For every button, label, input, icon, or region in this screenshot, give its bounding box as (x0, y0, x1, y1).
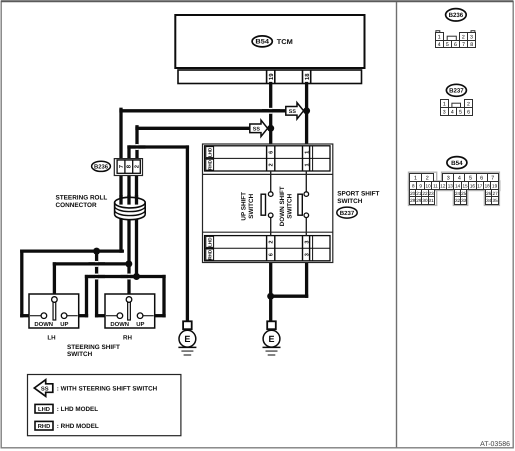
connector label B237 oval (main) (337, 207, 357, 218)
switch LH UP contact (61, 313, 77, 319)
svg-text:LH: LH (47, 335, 56, 342)
svg-text:SWITCH: SWITCH (337, 198, 363, 205)
down shift switch label (279, 186, 294, 226)
svg-text:6: 6 (467, 109, 470, 115)
wire DOWN branch to LH switch (vertical) (20, 251, 23, 316)
connector pinout view B236 (436, 31, 476, 48)
sport shift upper connector strip RHD row tag (206, 159, 214, 170)
wire jump break at RH lever wire / UP bus crossing (121, 274, 138, 280)
wire steering ground line vertical from B236 pin8 (127, 147, 130, 161)
svg-text:31: 31 (429, 198, 435, 203)
svg-text:SS: SS (289, 109, 297, 115)
steering shift switch RH box (105, 294, 155, 328)
connector label B236 oval (inline) (92, 161, 111, 171)
ground E (steering circuit) (178, 321, 196, 355)
switch RH DOWN contact (106, 313, 123, 319)
wire DOWN bus horizontal (22, 249, 123, 252)
inline connector B236 body (114, 159, 142, 176)
wire up-shift internal upper (270, 171, 272, 192)
svg-text:UP: UP (136, 321, 144, 328)
svg-text:32: 32 (455, 198, 461, 203)
svg-text:4: 4 (451, 109, 454, 115)
svg-text:25: 25 (461, 191, 467, 196)
sport shift lower connector strip pin cell 2/6 (267, 236, 275, 261)
svg-text:: WITH STEERING SHIFT SWITCH: : WITH STEERING SHIFT SWITCH (57, 386, 158, 393)
svg-text:: LHD MODEL: : LHD MODEL (57, 406, 98, 413)
svg-text:RH: RH (123, 335, 132, 342)
svg-text:AT-03586: AT-03586 (480, 441, 510, 448)
svg-text:13: 13 (448, 183, 454, 188)
sport shift lower connector strip LHD row tag (206, 236, 214, 247)
node DOWN bus junction (93, 248, 100, 255)
sport shift lower connector strip RHD row tag (206, 249, 214, 260)
svg-text:18: 18 (485, 183, 491, 188)
svg-text:10: 10 (426, 183, 432, 188)
svg-text:B236: B236 (449, 12, 464, 19)
wire sport switch ground joining horizontal (271, 295, 307, 298)
svg-text:7: 7 (462, 42, 465, 48)
svg-text:33: 33 (461, 198, 467, 203)
svg-text:RHD: RHD (208, 159, 213, 170)
legend LHD symbol (35, 404, 53, 413)
svg-text:B236: B236 (94, 164, 109, 171)
steering shift switch caption (67, 344, 120, 358)
TCM label (277, 39, 293, 46)
wire up-shift internal lower (270, 218, 272, 236)
wire UP branch to LH switch (vertical) (85, 277, 88, 316)
svg-text:2: 2 (462, 34, 465, 40)
svg-text:17: 17 (477, 183, 483, 188)
svg-text:6: 6 (269, 151, 275, 154)
svg-text:3: 3 (305, 253, 311, 256)
ground E (sport shift switch) (263, 321, 281, 355)
wire TCM pin19 to switch connector (vertical) (269, 84, 272, 147)
svg-text:TCM: TCM (277, 39, 293, 46)
TCM unit U-B54 box (175, 15, 364, 68)
legend SS arrow symbol (34, 380, 53, 397)
wire down-shift internal lower (305, 218, 307, 236)
svg-text:SWITCH: SWITCH (67, 351, 93, 358)
svg-text:LHD: LHD (208, 147, 213, 157)
svg-text:15: 15 (462, 183, 468, 188)
connector pinout view B237 (441, 100, 473, 116)
svg-text:2: 2 (269, 241, 275, 244)
wire left ground drop (vertical) (186, 147, 189, 322)
svg-text:35: 35 (493, 198, 499, 203)
svg-text:5: 5 (459, 109, 462, 115)
svg-text:19: 19 (492, 183, 498, 188)
node common bus junction (125, 260, 132, 267)
svg-text:1: 1 (305, 163, 311, 166)
switch LH DOWN contact (30, 313, 47, 319)
wire steering UP line vertical to B236 pin2 (135, 127, 138, 161)
svg-text:STEERING ROLL: STEERING ROLL (56, 195, 108, 202)
wire common branch to LH switch lever (53, 264, 56, 295)
down shift switch contacts (304, 192, 309, 218)
wire DOWN branch to RH switch (vertical) (95, 251, 98, 316)
svg-text:UP SHIFT: UP SHIFT (240, 192, 247, 221)
node TCM19/SS junction (267, 125, 274, 132)
wire UP branch into LH switch right side (78, 314, 87, 317)
svg-text:: RHD MODEL: : RHD MODEL (57, 423, 99, 430)
wire jump break at TCM19 wire / DOWN line crossing (262, 108, 280, 114)
steering roll connector label (56, 195, 108, 210)
wire UP branch to RH switch (vertical) (162, 277, 165, 316)
svg-text:2: 2 (426, 176, 429, 182)
up shift switch actuator bar (261, 194, 265, 215)
connector pinout view B54 (409, 172, 500, 205)
svg-text:B237: B237 (449, 88, 464, 95)
wire steering DOWN line vertical to B236 pin7 (119, 109, 122, 160)
svg-text:2: 2 (269, 163, 275, 166)
svg-text:SS: SS (253, 126, 261, 132)
svg-text:21: 21 (416, 191, 422, 196)
svg-text:DOWN: DOWN (34, 321, 53, 328)
svg-text:UP: UP (60, 321, 68, 328)
up shift switch contacts (268, 192, 273, 218)
sport shift switch assembly box B237 (203, 144, 333, 263)
svg-text:CONNECTOR: CONNECTOR (56, 202, 97, 209)
svg-text:29: 29 (416, 198, 422, 203)
sport shift upper connector strip (205, 146, 330, 171)
wire TCM pin18 to switch connector (vertical) (305, 84, 308, 147)
svg-text:26: 26 (486, 191, 492, 196)
wire steering ground line horizontal (129, 145, 187, 148)
connector label B54 oval (252, 36, 272, 47)
svg-text:DOWN SHIFT: DOWN SHIFT (279, 186, 286, 226)
svg-text:1: 1 (443, 101, 446, 107)
sport shift switch label (337, 190, 379, 205)
node ground junction (267, 293, 274, 300)
svg-text:SPORT SHIFT: SPORT SHIFT (337, 190, 379, 197)
svg-text:1: 1 (438, 34, 441, 40)
svg-text:4: 4 (458, 176, 461, 182)
connector label B237 oval (panel) (446, 84, 466, 96)
wire jump break at RH-DOWN branch / UP bus crossing (89, 274, 106, 280)
svg-text:2: 2 (134, 165, 141, 168)
svg-text:LHD: LHD (38, 407, 50, 413)
svg-text:RHD: RHD (208, 249, 213, 260)
wire B236 pin7 down to DOWN bus (119, 174, 122, 251)
svg-text:4: 4 (438, 42, 441, 48)
svg-text:SS: SS (41, 385, 49, 392)
svg-text:B237: B237 (340, 210, 355, 217)
steering roll connector symbol (115, 195, 146, 220)
svg-text:24: 24 (455, 191, 461, 196)
svg-text:B54: B54 (255, 39, 269, 46)
option arrow SS (to TCM pin18) (286, 103, 304, 119)
steering shift switch LH box (29, 294, 79, 328)
wire DOWN branch into LH switch left side (22, 314, 31, 317)
svg-text:E: E (268, 334, 274, 344)
svg-text:1: 1 (305, 151, 311, 154)
TCM pin 19 cell (267, 70, 275, 84)
svg-text:23: 23 (429, 191, 435, 196)
svg-text:5: 5 (446, 42, 449, 48)
wire DOWN branch into RH switch left side (97, 314, 107, 317)
node UP bus junction (133, 273, 140, 280)
svg-text:6: 6 (454, 42, 457, 48)
svg-text:19: 19 (268, 73, 275, 80)
panel separator line (396, 2, 398, 448)
switch LH lever (52, 297, 58, 320)
wire steering DOWN line horizontal to upper SS arrow (121, 109, 286, 112)
svg-text:18: 18 (304, 73, 311, 80)
svg-text:16: 16 (470, 183, 476, 188)
svg-text:6: 6 (480, 176, 483, 182)
svg-text:E: E (184, 334, 190, 344)
wire UP branch into RH switch right side (154, 314, 165, 317)
wire common bus horizontal (54, 262, 128, 265)
wire sport switch pin2 down to ground (269, 261, 272, 322)
svg-text:9: 9 (419, 183, 422, 188)
svg-text:28: 28 (410, 198, 416, 203)
svg-text:STEERING SHIFT: STEERING SHIFT (67, 344, 120, 351)
svg-text:RHD: RHD (38, 424, 51, 430)
up shift switch label (240, 192, 255, 221)
sport shift upper connector strip pin cell 1/1 (303, 146, 313, 171)
svg-text:14: 14 (455, 183, 461, 188)
svg-text:6: 6 (269, 253, 275, 256)
legend RHD symbol (35, 421, 53, 430)
svg-text:3: 3 (470, 34, 473, 40)
wire B236 pin2 down to UP bus (135, 174, 138, 277)
connector label B236 oval (panel) (446, 9, 467, 21)
sport shift lower connector strip (205, 236, 330, 261)
svg-text:7: 7 (491, 176, 494, 182)
wire UP bus horizontal (87, 275, 165, 278)
sport shift upper connector strip pin cell 6/2 (267, 146, 275, 171)
svg-text:LHD: LHD (208, 237, 213, 247)
sport shift lower connector strip pin cell 3/3 (303, 236, 313, 261)
wire down-shift internal upper (305, 171, 307, 192)
svg-text:3: 3 (447, 176, 450, 182)
svg-text:DOWN: DOWN (110, 321, 129, 328)
connector label B54 oval (panel) (447, 157, 467, 169)
svg-text:3: 3 (305, 241, 311, 244)
sport shift upper connector strip LHD row tag (206, 147, 214, 158)
svg-text:B54: B54 (451, 160, 463, 167)
TCM connector strip (178, 70, 362, 84)
wire B236 pin8 down to RH switch lever (127, 174, 130, 295)
switch RH lever (126, 297, 132, 320)
TCM pin 18 cell (303, 70, 311, 84)
svg-text:11: 11 (433, 183, 438, 188)
svg-text:8: 8 (412, 183, 415, 188)
svg-text:22: 22 (422, 191, 428, 196)
legend box (28, 375, 181, 436)
wire sport switch pin3 down (vertical) (305, 261, 308, 296)
svg-text:20: 20 (410, 191, 416, 196)
wire steering UP line horizontal to lower SS arrow (137, 127, 250, 130)
wire jump break at UP line / ground line crossing (129, 144, 146, 150)
switch RH UP contact (137, 313, 153, 319)
svg-text:5: 5 (469, 176, 472, 182)
svg-text:SWITCH: SWITCH (248, 193, 255, 218)
wire jump break at RH-DOWN branch / common bus crossing (89, 261, 106, 267)
node TCM18/SS junction (303, 107, 310, 114)
svg-text:27: 27 (493, 191, 499, 196)
svg-text:30: 30 (422, 198, 428, 203)
option arrow SS (to TCM pin19) (250, 120, 268, 136)
svg-text:SWITCH: SWITCH (286, 193, 293, 218)
svg-text:2: 2 (467, 101, 470, 107)
svg-text:7: 7 (119, 165, 125, 168)
svg-text:8: 8 (470, 42, 473, 48)
svg-text:12: 12 (440, 183, 446, 188)
down shift switch actuator bar (298, 194, 302, 215)
svg-text:1: 1 (414, 176, 417, 182)
svg-text:34: 34 (486, 198, 492, 203)
svg-text:3: 3 (443, 109, 446, 115)
